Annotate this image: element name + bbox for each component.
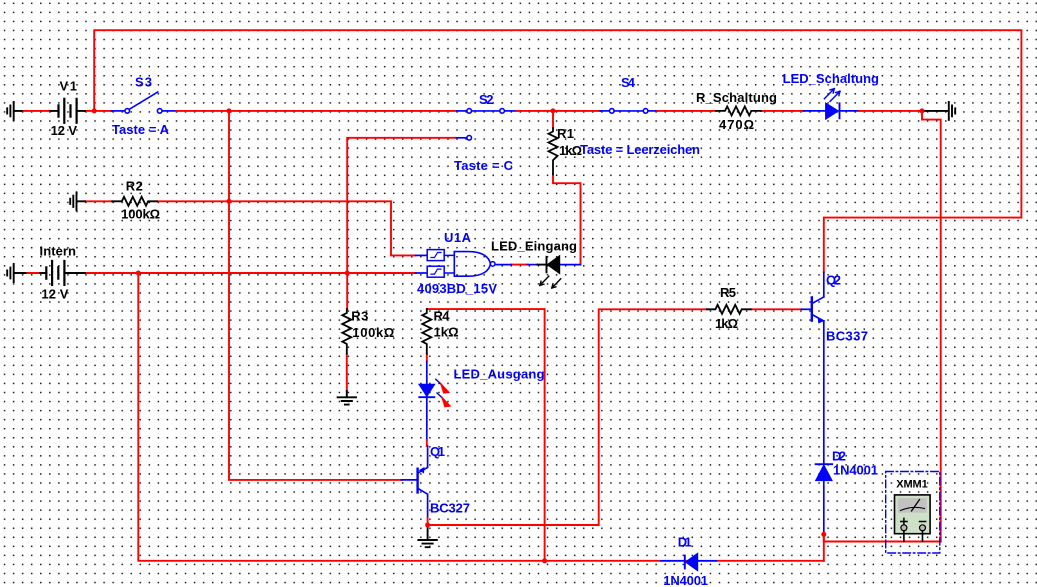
wire R1 top red <box>552 111 554 128</box>
svg-text:Taste = C: Taste = C <box>454 158 514 173</box>
svg-text:Q2: Q2 <box>826 272 841 287</box>
wire R4 to LED_Ausgang blue <box>426 362 428 385</box>
wire S4 to R_Schaltung <box>657 110 716 112</box>
svg-text:1kΩ: 1kΩ <box>559 143 582 158</box>
transistor Q1 PNP <box>418 467 428 494</box>
resistor R4 vertical <box>422 309 431 354</box>
diode D2 blue pointing up <box>816 464 833 480</box>
svg-text:S3: S3 <box>135 75 152 90</box>
resistor R2 <box>112 197 157 206</box>
svg-text:Taste = A: Taste = A <box>112 122 170 137</box>
svg-text:12 V: 12 V <box>41 287 68 302</box>
svg-text:LED_Ausgang: LED_Ausgang <box>454 366 545 381</box>
ground at Intern minus <box>7 264 25 282</box>
svg-text:XMM1: XMM1 <box>896 479 928 491</box>
svg-text:R4: R4 <box>434 309 451 324</box>
switch S2 closed with lower throw <box>467 109 505 141</box>
wire Intern ground stub red <box>25 272 40 274</box>
wire Intern battery to gate input B row <box>85 272 416 274</box>
LED LED_Schaltung blue pointing right <box>824 89 840 120</box>
wire gate output red segment <box>511 264 528 266</box>
wire S4 left lead <box>600 110 609 112</box>
wire Q1 node right and up to R5 <box>428 309 707 525</box>
wire gate B node down to R3 <box>346 273 348 309</box>
multimeter window placeholder <box>0 0 1037 1</box>
wire Q1 base blue lead <box>402 479 417 481</box>
ground at V1 minus <box>7 102 22 120</box>
svg-text:D1: D1 <box>678 535 692 550</box>
wire LED_Eingang left blue segment <box>528 264 538 266</box>
svg-text:Taste = Leerzeichen: Taste = Leerzeichen <box>580 142 700 157</box>
wire R1 bottom jog to LED_Eingang right side <box>553 175 581 265</box>
svg-text:100kΩ: 100kΩ <box>352 325 394 340</box>
ground below Q1 <box>418 527 436 547</box>
wire LED_Schaltung left lead blue <box>804 110 826 112</box>
svg-text:1N4001: 1N4001 <box>663 573 708 587</box>
svg-text:LED_Schaltung: LED_Schaltung <box>783 71 879 86</box>
wire bottom rail D1 right lead blue <box>698 560 717 562</box>
wire R2 right to gate input A <box>157 201 416 255</box>
ground at R2 <box>70 192 85 210</box>
resistor R3 vertical <box>342 309 351 354</box>
resistor R1 vertical <box>549 128 558 175</box>
wire gate input A blue lead <box>416 254 428 256</box>
svg-text:Q1: Q1 <box>430 444 445 459</box>
ground right of LED_Schaltung <box>922 102 955 120</box>
resistor R5 <box>707 305 751 314</box>
svg-text:470Ω: 470Ω <box>719 117 754 132</box>
svg-text:12 V: 12 V <box>51 123 78 138</box>
diode D1 blue pointing left <box>685 553 698 571</box>
wire S3 right lead <box>162 110 176 112</box>
NAND gate U1A 4093 with schmitt input squares <box>427 250 495 278</box>
wire step from right node down right-side drop <box>922 111 941 542</box>
svg-text:U1A: U1A <box>444 230 472 245</box>
wire S2 to S4 <box>516 110 600 112</box>
svg-text:LED_Eingang: LED_Eingang <box>491 239 577 254</box>
wire main row ground to V1 <box>22 110 51 112</box>
wire R5 to Q2 base <box>751 308 802 310</box>
wire gate output blue lead <box>495 264 511 266</box>
svg-text:D2: D2 <box>832 449 846 464</box>
svg-text:R2: R2 <box>126 178 143 193</box>
svg-text:1N4001: 1N4001 <box>833 463 878 478</box>
wire LED_Ausgang to Q1 blue then red <box>426 397 428 440</box>
LED LED_Eingang black pointing left <box>537 256 561 288</box>
wire D2 bottom to node <box>823 481 825 535</box>
wire red stub above Q1 emitter <box>426 440 428 446</box>
battery V1 <box>51 99 85 123</box>
wire LED_Eingang right blue segment <box>560 264 581 266</box>
wire Q1 collector lead blue <box>427 494 429 517</box>
wire top rail from node V1+ up and across to right side <box>94 30 1021 272</box>
wire Q1 collector to node <box>427 518 429 526</box>
svg-text:Intern: Intern <box>40 243 77 258</box>
wire S3 to S2 <box>176 110 457 112</box>
LED LED_Ausgang blue pointing down with red lit arrows <box>419 379 451 407</box>
wire node A to S3 left lead <box>112 110 125 112</box>
wire bottom rail riser to D2 node <box>823 534 825 560</box>
wire V1 to node A <box>85 110 112 112</box>
switch S3 open <box>125 92 162 113</box>
svg-text:R_Schaltung: R_Schaltung <box>696 90 777 105</box>
svg-text:100kΩ: 100kΩ <box>121 207 160 222</box>
svg-text:S4: S4 <box>621 75 636 90</box>
svg-text:BC327: BC327 <box>430 501 470 516</box>
wire Q1 emitter lead blue <box>427 446 429 467</box>
wire S2 lower throw to vertical drop <box>347 138 455 273</box>
svg-text:R5: R5 <box>720 285 736 300</box>
wire multimeter row <box>824 534 941 541</box>
wire Q2 emitter down to D2 <box>823 321 825 464</box>
svg-text:4093BD_15V: 4093BD_15V <box>417 281 497 296</box>
svg-text:1kΩ: 1kΩ <box>434 325 459 340</box>
wire Q2 base blue lead <box>802 308 811 310</box>
wire Q2 collector lead blue <box>823 272 825 297</box>
wire S2 right lead <box>504 110 516 112</box>
transistor Q2 NPN <box>812 297 824 324</box>
wire S4 right lead <box>648 110 658 112</box>
wire S2 left lead <box>457 110 467 112</box>
svg-text:1kΩ: 1kΩ <box>715 316 738 331</box>
wire gate input B blue lead <box>416 272 428 274</box>
wire Intern node down to bottom rail <box>138 273 824 561</box>
svg-text:R3: R3 <box>351 309 368 324</box>
wire LED_Schaltung right lead blue <box>840 110 860 112</box>
wire R3 bottom to ground <box>346 354 348 391</box>
wire R4 bottom red stub <box>426 354 428 362</box>
resistor R_Schaltung <box>716 106 761 115</box>
junction node dots <box>92 108 925 563</box>
wire node A vertical drop to Q1 base row <box>229 111 402 480</box>
switch S4 closed <box>610 109 648 114</box>
wire bottom rail D1 left lead blue <box>661 560 685 562</box>
battery Intern <box>41 261 86 285</box>
wire S2 lower throw lead blue <box>455 137 467 139</box>
ground below R3 <box>338 391 356 405</box>
wire R4 top rail to right drop <box>428 309 545 561</box>
wire R_Schaltung to LED_Schaltung <box>761 110 804 112</box>
svg-text:S2: S2 <box>479 92 494 107</box>
svg-text:R1: R1 <box>557 126 574 141</box>
wire LED_Schaltung to right ground node <box>859 110 922 112</box>
wire R2 ground stub red <box>85 200 112 202</box>
svg-text:BC337: BC337 <box>826 328 868 343</box>
instrument XMM1 icon <box>886 472 940 554</box>
